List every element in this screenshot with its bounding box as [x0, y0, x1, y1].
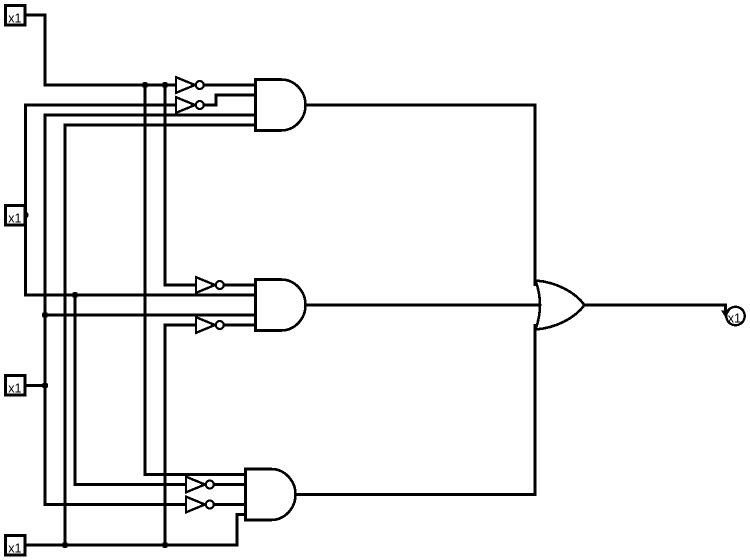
- wire AND1 output to OR input 1: [306, 105, 536, 286]
- svg-text:x1: x1: [728, 311, 741, 325]
- svg-text:x1: x1: [8, 381, 21, 395]
- input box x1 (bottom): [6, 536, 26, 556]
- wire inverter U5 output: [215, 483, 246, 486]
- input box x1 (top): [6, 6, 26, 26]
- svg-text:x1: x1: [8, 11, 21, 25]
- wire OR output to terminal: [585, 305, 726, 312]
- node junction (45,315): [42, 312, 48, 318]
- svg-text:x1: x1: [8, 211, 21, 225]
- node junction (145,85): [142, 82, 148, 88]
- node junction box3 output (45,385.5): [42, 382, 48, 388]
- wire trunk x=165 lower to inverter U4: [165, 325, 196, 545]
- wire inverter U2 output jog: [205, 95, 256, 105]
- inverter U3: [196, 277, 224, 293]
- node junction (165,545): [162, 542, 168, 548]
- node junction (75,295): [72, 292, 78, 298]
- and-gate AND3: [246, 469, 296, 520]
- inverter U6: [186, 497, 214, 513]
- wire inverter U1 output: [205, 84, 256, 87]
- wire trunk x=45 AND1 input 3 to inverter U6: [45, 115, 256, 505]
- wire box4 output to AND3 input 4: [23, 515, 246, 546]
- node junction (165,85): [162, 82, 168, 88]
- inverter U2: [176, 97, 204, 113]
- wire box1 to inverter U1: [23, 15, 176, 85]
- wire trunk x=65 to AND1 input 4: [65, 125, 256, 545]
- output terminal arrow: [721, 311, 730, 318]
- wire inverter U3 output: [225, 284, 256, 287]
- wire box2 trunk x=25 to inverter U2 and AND2 input 2: [26, 105, 256, 295]
- wire AND2 input 3: [45, 314, 256, 317]
- inverter U1: [176, 77, 204, 93]
- and-gate AND1: [256, 80, 306, 131]
- wire box2 output stub: [23, 214, 26, 217]
- inverter U4: [196, 317, 224, 333]
- wire box3 output: [23, 384, 45, 387]
- input box x1 (second): [6, 206, 26, 226]
- inverter U5: [186, 477, 214, 493]
- wire trunk x=75 to inverter U5: [75, 295, 186, 485]
- output terminal circle x1: [726, 307, 744, 326]
- input box x1 (third): [6, 376, 26, 396]
- wire trunk x=165 upper to inverter U3: [165, 85, 196, 285]
- node junction (65,545): [62, 542, 68, 548]
- wire trunk x=145 to AND3 input 1: [145, 85, 246, 475]
- wire inverter U6 output: [215, 503, 246, 506]
- wire inverter U4 output: [225, 324, 256, 327]
- node junction box2 output (25.5,215): [22, 212, 28, 218]
- wire AND2 output to OR input 2: [306, 304, 542, 307]
- wire AND3 output to OR input 3: [296, 324, 536, 495]
- svg-text:x1: x1: [8, 541, 21, 555]
- and-gate AND2: [256, 280, 306, 331]
- or-gate OR1: [536, 281, 585, 330]
